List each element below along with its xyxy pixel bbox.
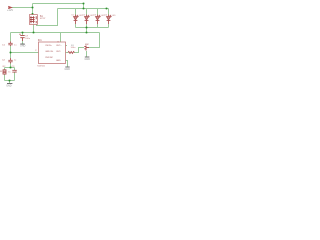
- ground GND5 bottom-left: [7, 83, 12, 85]
- capacitor C7 electrolytic: [20, 36, 24, 42]
- wire LED stub 4: [108, 9, 110, 15]
- wire R left: [66, 52, 69, 54]
- LED D2: [85, 15, 90, 25]
- wire C7 to gnd: [22, 41, 24, 44]
- wire vertical supply to S1: [32, 4, 34, 15]
- svg-text:VS IN+: VS IN+: [45, 45, 52, 47]
- ground GND4 below C7: [20, 43, 24, 45]
- LED D1: [74, 15, 79, 25]
- svg-text:MIC: MIC: [85, 44, 89, 46]
- wire IC pin A stub: [66, 45, 68, 47]
- capacitor C1: [8, 42, 12, 47]
- wire join bar: [5, 80, 15, 82]
- supply symbol +12V: [8, 6, 11, 8]
- wire V3 switch to feed bus: [37, 9, 58, 26]
- svg-text:LED: LED: [112, 15, 116, 17]
- LED D4: [107, 15, 112, 25]
- svg-text:+12V: +12V: [7, 8, 13, 12]
- svg-text:GND: GND: [56, 60, 61, 62]
- wire C1 to C2: [10, 46, 12, 58]
- wire LED stub 1: [75, 9, 77, 15]
- wire main mid line: [11, 32, 100, 34]
- junction dots: [9, 3, 108, 82]
- svg-text:100u: 100u: [25, 38, 31, 40]
- wire LED foot 1: [75, 24, 77, 28]
- wire right leg lower: [14, 72, 16, 80]
- ground GND2 below IC: [65, 66, 69, 68]
- svg-text:GND: GND: [20, 45, 26, 48]
- wire split bar: [5, 67, 15, 69]
- capacitor C3 (right of pair): [12, 70, 16, 72]
- wire IC gnd pin: [66, 61, 68, 67]
- wire LED foot 2: [86, 24, 88, 28]
- svg-text:SPDT: SPDT: [40, 18, 46, 20]
- wire gnd stem bottom-left: [9, 81, 11, 84]
- wire to IC pin left: [11, 52, 39, 54]
- svg-text:TDA7052: TDA7052: [37, 65, 45, 68]
- wire LED feed bus: [58, 8, 109, 10]
- resistor R1 zigzag: [68, 52, 74, 54]
- wire below C2: [10, 64, 12, 68]
- switch S1 inner: [30, 16, 36, 23]
- svg-text:SVR NC: SVR NC: [45, 57, 53, 59]
- wire mic right: [89, 33, 100, 48]
- wire feed drop V2: [83, 4, 85, 9]
- LED D3: [96, 15, 101, 25]
- wire LED foot 4: [108, 24, 110, 28]
- wire +12V horizontal: [12, 7, 33, 9]
- microphone MIC: [84, 46, 89, 51]
- wire C7 drop: [22, 33, 24, 36]
- svg-text:GND: GND: [6, 84, 12, 87]
- wire left leg lower: [4, 74, 6, 80]
- wire S1 left throw stub: [33, 25, 35, 33]
- svg-text:GND: GND: [65, 68, 71, 71]
- plus mark C7: [19, 34, 20, 35]
- svg-text:OUT-: OUT-: [56, 51, 61, 53]
- wire IC top pin: [60, 33, 62, 43]
- wire top bus: [33, 3, 84, 5]
- wire LED stub 2: [86, 9, 88, 15]
- wire LED bottom bus: [76, 27, 109, 29]
- wire LED stub 3: [97, 9, 99, 15]
- switch S1 box: [29, 15, 37, 25]
- wire LED foot 3: [97, 24, 99, 28]
- wire right leg: [14, 68, 16, 71]
- wire LED return drop: [86, 28, 88, 33]
- wire mic bottom: [86, 51, 88, 57]
- svg-text:OUT+: OUT+: [56, 45, 62, 47]
- wire left leg: [4, 68, 6, 70]
- svg-text:100n: 100n: [71, 47, 77, 49]
- svg-text:GND IN-: GND IN-: [45, 51, 53, 53]
- IC1 box: [39, 42, 66, 64]
- resistor R3 (left of pair): [3, 70, 6, 74]
- wire left drop to C1: [10, 33, 12, 42]
- ground GND3 below mic: [85, 56, 90, 58]
- capacitor C2: [8, 58, 12, 64]
- wire R right to mic: [74, 48, 84, 53]
- svg-text:GND: GND: [85, 58, 91, 61]
- svg-text:IC1: IC1: [38, 38, 43, 42]
